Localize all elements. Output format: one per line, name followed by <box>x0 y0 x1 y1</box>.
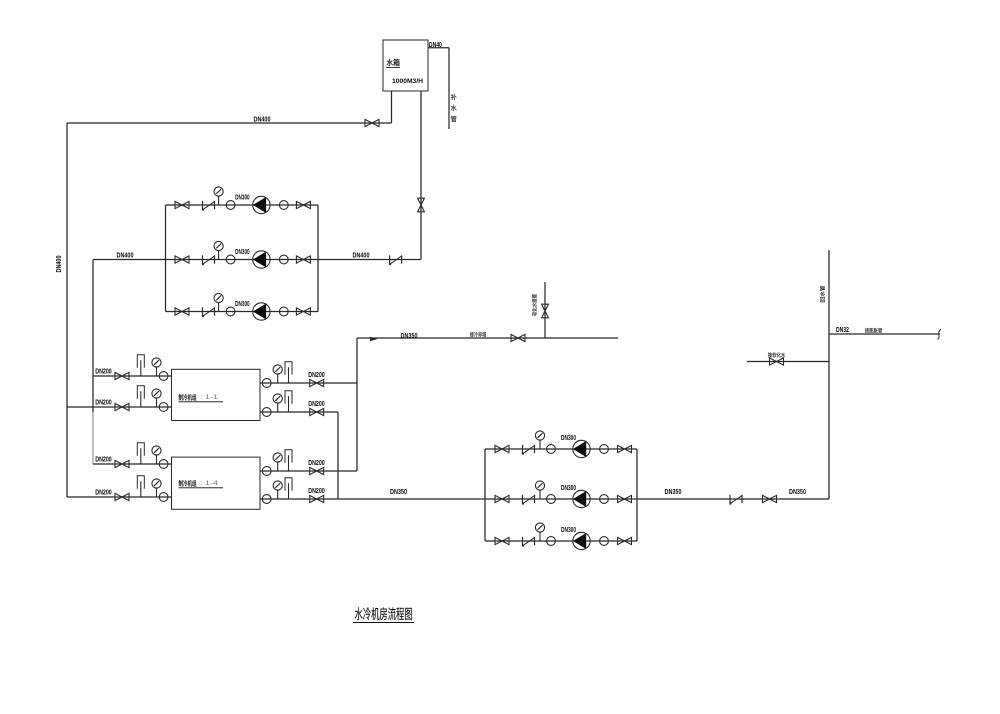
svg-text:DN300: DN300 <box>235 195 250 202</box>
chiller 2 title 制冷机组 <box>179 480 197 486</box>
pump P6 <box>573 532 590 549</box>
chiller 2 title underline <box>179 487 224 489</box>
pressure gauge pump P5 <box>535 481 544 499</box>
svg-text:DN300: DN300 <box>561 485 576 492</box>
outlet valve 4 <box>310 495 324 502</box>
svg-text:DN350: DN350 <box>401 333 418 340</box>
svg-text:DN200: DN200 <box>308 460 325 467</box>
water tank box <box>383 40 428 91</box>
pipe: chiller outlet 3 <box>260 470 357 472</box>
chiller unit box 2 <box>172 457 261 509</box>
flexible joint inlet 3 <box>159 460 168 469</box>
discharge valve pump 1 <box>296 201 310 208</box>
pressure gauge inlet 1 <box>152 358 161 376</box>
check valve pump P5 <box>522 495 535 505</box>
chiller 1 title 制冷机组 <box>179 394 197 400</box>
svg-text:DN400: DN400 <box>254 115 271 124</box>
pipe: chiller inlet 1 <box>93 375 172 377</box>
svg-text:DN300: DN300 <box>235 301 250 308</box>
flexible joint pump 2 outlet <box>279 255 288 264</box>
pressure gauge pump P4 <box>535 431 544 449</box>
thermometer well outlet 2 <box>285 391 292 412</box>
discharge valve pump 2 <box>296 256 310 263</box>
pipe: chiller return riser <box>337 412 339 499</box>
flexible joint pump 3 outlet <box>279 307 288 316</box>
chiller unit box 1 <box>172 369 261 420</box>
outlet valve 2 <box>310 408 324 415</box>
pipe: soft water connection right <box>747 361 829 363</box>
svg-text:DN400: DN400 <box>117 251 134 260</box>
label 软化水接管 vertical <box>532 294 537 316</box>
flexible joint inlet 2 <box>159 403 168 412</box>
thermometer well inlet 4 <box>137 476 144 497</box>
svg-text:1000M3/H: 1000M3/H <box>392 78 423 85</box>
check valve pump 3 <box>202 307 215 317</box>
pump P5 <box>573 490 590 507</box>
pressure gauge outlet 2 <box>273 394 282 412</box>
flexible joint pump 1 inlet <box>226 201 235 210</box>
pump P2 <box>253 251 270 268</box>
pipe: chiller inlet 4 <box>67 496 172 498</box>
flexible joint pump P6 inlet <box>547 537 556 546</box>
discharge valve pump P5 <box>618 495 632 502</box>
pipe: top pump branch 1 <box>166 204 319 206</box>
discharge valve pump P6 <box>618 537 632 544</box>
valve on tank suction line <box>365 119 379 126</box>
chiller 1 title underline <box>179 401 224 403</box>
suction valve pump P5 <box>495 495 509 502</box>
svg-text:DN200: DN200 <box>95 400 112 407</box>
svg-text:DN350: DN350 <box>390 489 407 496</box>
pump P4 <box>573 440 590 457</box>
pump P3 <box>253 303 270 320</box>
valve on bottom discharge <box>763 495 777 502</box>
pipe: soft water make-up drop <box>544 282 546 338</box>
pipe: top pump branch 2 <box>93 259 421 261</box>
underline of 水箱 <box>386 67 400 69</box>
pipe: bottom pump branch 4 <box>485 448 637 450</box>
pipe: tank return riser <box>420 91 422 260</box>
flexible joint pump P5 outlet <box>600 495 609 504</box>
pipe: pump suction branch riser <box>92 260 94 413</box>
pipe: chiller supply riser <box>356 338 358 471</box>
pressure gauge inlet 4 <box>152 479 161 497</box>
check valve pump 2 <box>202 255 215 265</box>
discharge valve pump P4 <box>618 445 632 452</box>
pressure gauge outlet 1 <box>273 365 282 383</box>
check valve pump 1 <box>202 201 215 211</box>
svg-text:DN400: DN400 <box>54 256 63 273</box>
svg-text:DN400: DN400 <box>353 251 370 260</box>
pipe: pump suction branch riser lower (faint) <box>92 412 94 464</box>
label 接冷却塔 <box>470 332 486 337</box>
flexible joint pump P6 outlet <box>600 537 609 546</box>
svg-text:DN300: DN300 <box>561 435 576 442</box>
thermometer well outlet 4 <box>285 478 292 499</box>
pipe: top pump branch 3 <box>166 311 319 313</box>
svg-text:DN200: DN200 <box>308 372 325 379</box>
suction valve pump 1 <box>175 201 189 208</box>
outlet valve 1 <box>310 379 324 386</box>
flexible joint inlet 4 <box>159 493 168 502</box>
pipe: tank suction header top <box>67 122 392 124</box>
suction valve pump P6 <box>495 537 509 544</box>
pressure gauge pump P6 <box>535 523 544 541</box>
svg-text:DN300: DN300 <box>235 249 250 256</box>
inlet valve 2 <box>115 403 129 410</box>
svg-text:DN350: DN350 <box>665 489 682 496</box>
pipe: bottom pump group right header <box>636 449 638 541</box>
suction valve pump 3 <box>175 308 189 315</box>
pipe: cooling supply main DN350 <box>357 337 618 339</box>
flexible joint outlet 1 <box>262 379 271 388</box>
valve on supply main <box>511 334 525 341</box>
pressure gauge pump 1 <box>214 187 223 205</box>
svg-text:DN40: DN40 <box>429 42 442 49</box>
pipe: bottom pump branch 5 <box>485 498 637 500</box>
flexible joint outlet 3 <box>262 467 271 476</box>
title underline <box>353 622 414 624</box>
svg-text:DN200: DN200 <box>308 488 325 495</box>
discharge valve pump 3 <box>296 308 310 315</box>
check valve pump P6 <box>522 537 535 547</box>
inlet valve 3 <box>115 460 129 467</box>
pipe: make-up water drop <box>448 48 450 129</box>
svg-text:DN32: DN32 <box>836 327 849 334</box>
pressure gauge outlet 4 <box>273 481 282 499</box>
flexible joint pump P5 inlet <box>547 495 556 504</box>
flexible joint outlet 2 <box>262 408 271 417</box>
pipe: bottom pump group left header <box>484 449 486 541</box>
flow arrow on supply main <box>370 337 378 341</box>
suction valve pump P4 <box>495 445 509 452</box>
pipe: chiller outlet 4 <box>260 498 485 500</box>
label 接膨胀管 <box>865 328 882 333</box>
pipe: chiller outlet 2 <box>260 411 338 413</box>
svg-text:: 1-1: : 1-1 <box>200 394 219 401</box>
pipe: right riser <box>828 250 830 499</box>
svg-text:DN200: DN200 <box>95 490 112 497</box>
pressure gauge outlet 3 <box>273 453 282 471</box>
thermometer well inlet 2 <box>137 386 144 407</box>
valve on tank return riser <box>418 198 425 212</box>
svg-text:DN300: DN300 <box>561 527 576 534</box>
flexible joint pump P4 inlet <box>547 445 556 454</box>
thermometer well inlet 1 <box>137 355 144 376</box>
label 回水管 vertical <box>820 286 825 302</box>
pressure gauge inlet 3 <box>152 446 161 464</box>
check valve pump P4 <box>522 445 535 455</box>
check valve on pump discharge main <box>389 255 402 265</box>
inlet valve 1 <box>115 372 129 379</box>
pipe: chiller inlet 2 <box>67 406 172 408</box>
flexible joint pump P4 outlet <box>600 445 609 454</box>
pipe: expansion line DN32 <box>829 333 940 335</box>
pipe: top pump group right header <box>317 205 319 312</box>
thermometer well inlet 3 <box>137 443 144 464</box>
valve on soft water drop <box>542 304 549 318</box>
pipe: chiller outlet 1 <box>260 382 357 384</box>
pipe: tank outlet left stub <box>391 91 393 123</box>
pipe: bottom pump branch 6 <box>485 540 637 542</box>
svg-text:DN200: DN200 <box>308 401 325 408</box>
flexible joint pump 1 outlet <box>279 201 288 210</box>
pressure gauge pump 3 <box>214 293 223 311</box>
label 补水管 (make-up pipe) <box>451 94 457 122</box>
flexible joint pump 2 inlet <box>226 255 235 264</box>
pipe: top pump group left header <box>165 205 167 312</box>
svg-text:DN350: DN350 <box>789 489 806 496</box>
check valve on bottom discharge <box>729 495 742 505</box>
flexible joint inlet 1 <box>159 372 168 381</box>
pipe: make-up water horizontal <box>428 47 449 49</box>
tank title 水箱 <box>387 59 400 66</box>
svg-text:DN200: DN200 <box>95 457 112 464</box>
pipe: bottom discharge main DN350 <box>637 498 829 500</box>
flexible joint pump 3 inlet <box>226 307 235 316</box>
pipe break mark <box>938 329 942 340</box>
outlet valve 3 <box>310 467 324 474</box>
pressure gauge pump 2 <box>214 241 223 259</box>
svg-text:DN200: DN200 <box>95 369 112 376</box>
pump P1 <box>253 196 270 213</box>
pipe: chiller inlet 3 <box>93 463 172 465</box>
thermometer well outlet 3 <box>285 450 292 471</box>
inlet valve 4 <box>115 493 129 500</box>
drawing title 水冷机房流程图 <box>355 607 412 620</box>
pipe: left main riser DN400 <box>66 123 68 497</box>
suction valve pump 2 <box>175 256 189 263</box>
flexible joint outlet 4 <box>262 495 271 504</box>
svg-text:: 1-4: : 1-4 <box>200 480 219 487</box>
label 接软化水 <box>768 352 785 357</box>
valve on soft water connection <box>770 358 784 365</box>
thermometer well outlet 1 <box>285 362 292 383</box>
pressure gauge inlet 2 <box>152 389 161 407</box>
